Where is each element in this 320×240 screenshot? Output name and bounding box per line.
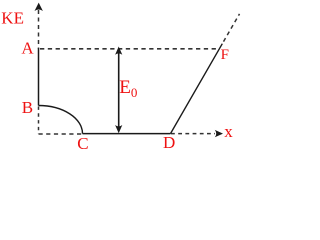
y-axis solid segment (A to B): [38, 48, 40, 105]
horizontal dashed line at level A: [40, 48, 216, 50]
x-axis dashed segment (origin to C): [39, 133, 83, 135]
E0 double arrow vertical line: [118, 53, 120, 129]
E0 arrowhead up: [115, 47, 122, 55]
y-axis dashed upper segment (arrow to A): [38, 10, 40, 49]
slanted solid line D to F: [171, 44, 223, 134]
svg-text:A: A: [21, 39, 34, 58]
y-axis arrowhead (top): [35, 3, 43, 11]
x-axis arrowhead (right): [215, 130, 223, 137]
E0 arrowhead down: [115, 125, 122, 133]
x-axis dashed segment (D to arrow): [171, 133, 215, 135]
y-axis dashed lower segment (B to origin): [38, 107, 40, 135]
svg-text:F: F: [221, 47, 229, 63]
svg-text:C: C: [77, 134, 88, 153]
svg-text:x: x: [224, 122, 233, 141]
curve B to C (quarter ellipse): [39, 106, 83, 134]
slanted dashed extension beyond F: [224, 14, 240, 42]
x-axis solid segment (C to D): [83, 133, 171, 135]
svg-text:D: D: [163, 133, 175, 152]
svg-text:KE: KE: [1, 9, 24, 28]
svg-text:B: B: [22, 98, 33, 117]
